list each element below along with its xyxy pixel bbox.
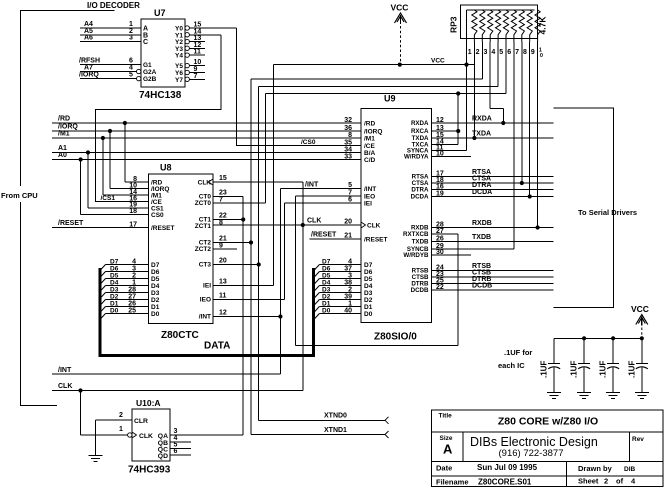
svg-text:C/D: C/D — [364, 157, 376, 164]
svg-text:39: 39 — [344, 294, 352, 301]
U9 clk pin number — [344, 219, 352, 226]
wire SYNCB from RP3 pin 7 — [432, 42, 514, 249]
svg-text:G2A: G2A — [143, 69, 157, 76]
wire CTSB to serial drivers — [432, 270, 554, 277]
svg-text:.1UF for: .1UF for — [504, 348, 532, 357]
junction VCC RP3 pin1 — [464, 63, 468, 67]
open connector XTND1 — [385, 431, 389, 438]
svg-text:3: 3 — [129, 35, 133, 42]
svg-text:DCDA: DCDA — [411, 194, 429, 201]
U7 output Y2 pin 13 wire — [185, 35, 205, 44]
capacitor C4 .1UF with ground — [627, 338, 649, 398]
svg-text:/INT: /INT — [305, 181, 319, 188]
svg-text:8: 8 — [523, 49, 527, 56]
svg-text:/RESET: /RESET — [151, 225, 175, 232]
svg-text:D2: D2 — [110, 294, 119, 301]
wire /M1 bus line — [52, 131, 361, 138]
svg-text:17: 17 — [129, 221, 137, 228]
stub W/RDYA pin 10 — [432, 156, 472, 158]
svg-text:74HC393: 74HC393 — [128, 465, 171, 476]
title block date row — [436, 463, 636, 473]
wire A1 bus line — [52, 145, 361, 152]
svg-text:D4: D4 — [110, 280, 119, 287]
svg-text:DCDB: DCDB — [472, 283, 492, 290]
svg-text:38: 38 — [344, 280, 352, 287]
junction cap rail 2 — [582, 336, 586, 340]
svg-text:/INT: /INT — [199, 314, 211, 321]
wire A0 bus line — [52, 152, 361, 159]
wire /RESET stub to U9 pin 21 — [309, 232, 361, 239]
junction VCC arrow — [398, 63, 402, 67]
svg-text:Sun Jul 09 1995: Sun Jul 09 1995 — [477, 463, 538, 472]
DATA bus thick line — [99, 268, 315, 356]
svg-text:Y4: Y4 — [175, 53, 183, 60]
svg-text:/RESET: /RESET — [311, 232, 337, 239]
wire DCDB to serial drivers — [432, 283, 554, 290]
svg-text:.1UF: .1UF — [570, 361, 579, 378]
capacitor C2 .1UF with ground — [570, 338, 592, 398]
svg-text:CT3: CT3 — [199, 262, 212, 269]
svg-text:Z80CORE.S01: Z80CORE.S01 — [478, 478, 532, 487]
svg-text:I/O DECODER: I/O DECODER — [87, 1, 140, 10]
svg-text:/INT: /INT — [364, 186, 376, 193]
svg-text:CLK: CLK — [139, 433, 153, 440]
U9 clock input mark — [361, 222, 381, 230]
svg-text:D6: D6 — [322, 266, 331, 273]
svg-text:13: 13 — [219, 279, 227, 286]
stub U10 QB — [170, 441, 191, 443]
wire RTSB to serial drivers — [432, 263, 554, 270]
U7 output Y6 pin 9 wire — [185, 66, 205, 75]
junction cap rail 3 — [611, 336, 615, 340]
svg-text:RXCA: RXCA — [411, 128, 429, 135]
svg-text:/RD: /RD — [364, 120, 376, 127]
svg-text:2: 2 — [604, 477, 608, 486]
svg-text:XTND1: XTND1 — [324, 427, 347, 434]
svg-text:CLK: CLK — [58, 383, 72, 390]
svg-text:1: 1 — [348, 301, 352, 308]
stub U8 ZCT1 pin 8 — [213, 224, 225, 226]
svg-text:9: 9 — [219, 242, 223, 249]
svg-text:/RESET: /RESET — [364, 237, 388, 244]
svg-text:4: 4 — [491, 49, 495, 56]
svg-text:Date: Date — [436, 464, 452, 473]
svg-text:2: 2 — [119, 412, 123, 419]
wire RXDB to serial drivers — [432, 220, 554, 227]
svg-text:DIBs Electronic Design: DIBs Electronic Design — [470, 435, 598, 449]
capacitor C1 .1UF with ground — [540, 338, 562, 398]
svg-text:1: 1 — [132, 280, 136, 287]
svg-text:26: 26 — [128, 301, 136, 308]
svg-text:.1UF: .1UF — [627, 361, 636, 378]
U9 interrupt pin labels — [348, 182, 376, 207]
svg-text:G2B: G2B — [143, 76, 157, 83]
wire DTRA to serial drivers — [432, 182, 554, 189]
U9 left control pin labels — [344, 117, 382, 164]
svg-text:each IC: each IC — [498, 361, 525, 370]
svg-text:(916) 722-3877: (916) 722-3877 — [499, 448, 564, 459]
svg-text:ZCT2: ZCT2 — [195, 246, 212, 253]
counter U10:A 74HC393 body — [128, 398, 171, 476]
svg-text:9: 9 — [531, 49, 535, 56]
svg-text:12: 12 — [219, 310, 227, 317]
svg-text:D5: D5 — [151, 276, 160, 283]
wire U8 IEO to U9 IEI — [213, 203, 361, 300]
U9 right pin labels and numbers — [403, 117, 444, 294]
wire /IORD to U7 pin 5 with inversion bubble — [79, 72, 141, 81]
stub W/RDYB pin 30 — [432, 254, 472, 256]
junction QA net at CT1 — [241, 217, 245, 221]
wire VCC rail — [274, 57, 475, 64]
U9 reset pin label — [344, 233, 387, 244]
junction baud clock at RXCA — [456, 129, 460, 133]
svg-text:6: 6 — [507, 49, 511, 56]
svg-text:Filename: Filename — [436, 478, 469, 487]
wire A6 to U7 pin 3 — [80, 35, 141, 42]
From CPU bracket — [1, 11, 115, 406]
U7 pin labels inside — [143, 26, 183, 84]
svg-text:4.7K: 4.7K — [538, 16, 548, 35]
svg-text:W/RDYA: W/RDYA — [404, 154, 429, 161]
svg-text:0: 0 — [540, 53, 543, 59]
wire A4 to U7 pin 1 — [80, 21, 141, 28]
wire A7 to U7 pin 4 with inversion bubble — [80, 65, 141, 74]
svg-text:D1: D1 — [322, 301, 331, 308]
wire TXDA to serial drivers — [432, 131, 554, 138]
junction XTND1 at CT2 — [249, 240, 253, 244]
svg-text:4: 4 — [132, 259, 136, 266]
svg-text:Z80CTC: Z80CTC — [161, 330, 199, 341]
U8 right pin labels — [195, 175, 227, 321]
junction /RD to U8 — [123, 121, 149, 182]
svg-text:6: 6 — [174, 448, 178, 455]
svg-text:D0: D0 — [364, 311, 373, 318]
svg-text:34: 34 — [344, 146, 352, 153]
svg-text:CLK: CLK — [307, 218, 321, 225]
svg-text:/RFSH: /RFSH — [79, 58, 100, 65]
title block filename row — [436, 477, 636, 487]
junction baud clock at RP3 pin6 drop — [456, 91, 460, 95]
U7 output Y4 pin 11 wire — [185, 49, 205, 58]
svg-text:D3: D3 — [110, 287, 119, 294]
wire DCDA to serial drivers — [432, 189, 554, 196]
stub U8 ZCT2 pin 9 — [213, 248, 237, 250]
svg-text:DTRA: DTRA — [472, 182, 491, 189]
RP3 pin1 lead to VCC — [466, 42, 468, 65]
svg-text:U9: U9 — [384, 94, 396, 104]
svg-text:D1: D1 — [110, 301, 119, 308]
svg-text:/IORQ: /IORQ — [79, 72, 99, 79]
svg-text:VCC: VCC — [631, 304, 649, 314]
wire capacitor rail — [554, 337, 642, 339]
svg-text:G1: G1 — [143, 62, 152, 69]
svg-text:IEO: IEO — [364, 194, 375, 201]
svg-text:18: 18 — [129, 208, 137, 215]
svg-text:D4: D4 — [322, 280, 331, 287]
svg-text:3: 3 — [484, 49, 488, 56]
U9 data pins D7-D0 with bus stubs — [313, 259, 372, 321]
wire /RFSH to U7 pin 6 — [79, 58, 141, 65]
svg-text:A1: A1 — [58, 145, 67, 152]
junction cap rail vcc — [640, 336, 644, 340]
U7 output Y5 pin 10 wire — [185, 59, 205, 68]
wire DTRB to serial drivers — [432, 276, 554, 283]
junction XTND0 at CT3 — [257, 262, 261, 266]
RP3 pin2 lead to TXDA pullup — [472, 42, 476, 140]
svg-text:/INT: /INT — [58, 367, 72, 374]
svg-text:Z80 CORE w/Z80 I/O: Z80 CORE w/Z80 I/O — [498, 416, 598, 428]
svg-text:D5: D5 — [322, 273, 331, 280]
svg-text:Drawn by: Drawn by — [578, 464, 613, 473]
svg-text:CLR: CLR — [134, 418, 148, 425]
svg-text:15: 15 — [219, 175, 227, 182]
svg-text:IEI: IEI — [364, 201, 372, 208]
svg-text:40: 40 — [344, 308, 352, 315]
wire net /CS1 from U7 Y1 to U8 /CE pin 16 — [96, 35, 222, 202]
svg-text:RXTXCB: RXTXCB — [403, 231, 429, 238]
decoder U7 74HC138 body — [139, 8, 185, 101]
svg-text:ZCT1: ZCT1 — [195, 223, 212, 230]
svg-text:D7: D7 — [322, 259, 331, 266]
svg-text:/M1: /M1 — [364, 135, 375, 142]
wire RTSA to serial drivers — [432, 169, 554, 176]
stub U10 QD — [170, 454, 191, 456]
VCC symbol top — [391, 3, 409, 65]
To Serial Drivers bracket — [554, 108, 637, 308]
svg-text:/M1: /M1 — [58, 131, 70, 138]
svg-text:/CS1: /CS1 — [101, 195, 116, 202]
svg-text:DCDA: DCDA — [472, 189, 492, 196]
RP3 pin6 lead to baud clock — [505, 42, 507, 94]
svg-text:DIB: DIB — [624, 466, 636, 473]
svg-text:D6: D6 — [151, 269, 160, 276]
capacitor C3 .1UF with ground — [599, 338, 621, 398]
RP3 pin3 lead to XTND1 — [481, 42, 483, 79]
svg-text:28: 28 — [128, 287, 136, 294]
RP3 pin10 lead to RXDB pullup — [536, 42, 540, 230]
svg-text:A: A — [443, 442, 453, 457]
junction A0 to U8 CS0 — [79, 157, 149, 214]
svg-text:3: 3 — [132, 266, 136, 273]
wire XTND1 net to U8 CT2 and RP3 pin 3 — [213, 79, 482, 435]
svg-text:XTND0: XTND0 — [324, 413, 347, 420]
title block title row — [439, 413, 599, 428]
svg-text:RP3: RP3 — [449, 16, 459, 33]
svg-text:20: 20 — [219, 258, 227, 265]
svg-text:VCC: VCC — [431, 57, 445, 64]
junction /IORQ to U8 — [108, 129, 149, 189]
RP3 pin4 lead to RXDA pullup — [490, 42, 505, 125]
svg-text:RXDA: RXDA — [472, 116, 492, 123]
svg-text:ZCT0: ZCT0 — [195, 200, 212, 207]
svg-text:D4: D4 — [364, 283, 373, 290]
svg-text:D3: D3 — [151, 290, 160, 297]
svg-text:35: 35 — [344, 139, 352, 146]
svg-text:D6: D6 — [364, 269, 373, 276]
svg-text:6: 6 — [129, 58, 133, 65]
svg-text:QD: QD — [158, 453, 168, 460]
svg-text:11: 11 — [219, 293, 227, 300]
svg-text:TXDB: TXDB — [472, 234, 491, 241]
svg-text:2: 2 — [476, 49, 480, 56]
VCC symbol bottom right — [631, 304, 649, 338]
svg-text:RXDA: RXDA — [411, 120, 429, 127]
wire U8 IEI to VCC — [213, 65, 274, 286]
SIO U9 Z80SIO/0 body — [361, 94, 432, 343]
svg-text:4: 4 — [129, 65, 133, 72]
wire /IORQ bus line — [52, 124, 361, 131]
junction /INT at U8 pin 12 — [278, 314, 282, 318]
svg-text:2: 2 — [132, 273, 136, 280]
svg-text:D7: D7 — [110, 259, 119, 266]
I/O DECODER title label — [87, 1, 140, 10]
svg-text:.1UF: .1UF — [540, 361, 549, 378]
U7 output Y3 pin 12 wire — [185, 42, 205, 51]
svg-text:D6: D6 — [110, 266, 119, 273]
wire /INT net — [52, 181, 361, 374]
caps note text — [498, 348, 532, 370]
svg-text:Rev: Rev — [632, 436, 644, 443]
U8 data pins D7-D0 with bus stubs — [100, 259, 160, 321]
svg-text:5: 5 — [129, 72, 133, 79]
svg-text:U7: U7 — [154, 8, 166, 18]
U7 output Y0 pin 15 wire — [185, 22, 237, 31]
svg-text:A7: A7 — [84, 65, 93, 72]
svg-text:1: 1 — [119, 426, 123, 433]
wire XTND0 net to U8 CT3 and RP3 pin 5 — [213, 87, 498, 421]
svg-text:D0: D0 — [110, 308, 119, 315]
svg-text:1: 1 — [468, 49, 472, 56]
title block size and company — [440, 435, 645, 459]
svg-text:DATA: DATA — [204, 341, 230, 352]
svg-text:3: 3 — [348, 273, 352, 280]
wire CTSA to serial drivers — [432, 176, 554, 183]
U8 pin numbers for CT rows — [219, 190, 227, 317]
svg-text:5: 5 — [499, 49, 503, 56]
U8 clock input mark — [198, 179, 213, 187]
svg-text:27: 27 — [128, 294, 136, 301]
wire RXDA to serial drivers — [432, 116, 554, 123]
svg-text:7: 7 — [194, 73, 198, 80]
U10 CLR pin wire and ground — [89, 412, 148, 461]
svg-text:/CE: /CE — [364, 143, 376, 150]
svg-text:D5: D5 — [364, 276, 373, 283]
svg-text:D2: D2 — [364, 297, 373, 304]
U10 output labels — [158, 428, 178, 460]
svg-text:B/A: B/A — [364, 150, 376, 157]
svg-text:CLK: CLK — [367, 223, 381, 230]
svg-text:CS0: CS0 — [151, 212, 164, 219]
svg-text:D2: D2 — [322, 294, 331, 301]
RP3 pin5 lead to XTND0 — [497, 42, 499, 87]
svg-text:IEO: IEO — [200, 297, 211, 304]
svg-text:C: C — [143, 39, 148, 46]
svg-text:11: 11 — [194, 49, 202, 56]
svg-text:IEI: IEI — [203, 283, 211, 290]
wire net /CS0 from U7 Y0 to U9 /CE pin 35 — [237, 28, 361, 146]
wire /RESET line to U8 pin 17 — [52, 220, 149, 227]
svg-text:/CS0: /CS0 — [301, 139, 316, 146]
svg-text:D0: D0 — [322, 308, 331, 315]
svg-text:.1UF: .1UF — [599, 361, 608, 378]
svg-text:Sheet: Sheet — [578, 477, 599, 486]
wire A5 to U7 pin 2 — [80, 28, 141, 35]
svg-text:D3: D3 — [322, 287, 331, 294]
svg-text:7: 7 — [515, 49, 519, 56]
junction /M1 to U8 — [101, 136, 149, 195]
svg-text:W/RDYB: W/RDYB — [403, 252, 429, 259]
svg-text:To Serial Drivers: To Serial Drivers — [578, 208, 637, 217]
RP3 pin7 lead to SYNCB — [513, 42, 515, 56]
svg-text:CLK: CLK — [198, 180, 212, 187]
junction CLK main — [301, 223, 305, 227]
svg-text:D3: D3 — [364, 290, 373, 297]
svg-text:4: 4 — [348, 259, 352, 266]
wire baud clock A net from U8 ZCT0 to U9 RXCA TXCA and RP3 pin 6 — [213, 94, 506, 204]
svg-text:D7: D7 — [364, 262, 373, 269]
wire TXDB to serial drivers — [432, 234, 554, 241]
svg-text:U10:A: U10:A — [136, 398, 161, 408]
U10 CLK pin with bubble — [119, 426, 153, 440]
U7 output Y1 pin 14 wire — [185, 28, 221, 37]
U8 left pin labels — [129, 176, 174, 232]
svg-text:/IORQ: /IORQ — [58, 124, 78, 131]
svg-text:D7: D7 — [151, 262, 160, 269]
svg-text:Y7: Y7 — [175, 77, 183, 84]
U7 output Y7 pin 7 wire — [185, 73, 205, 82]
RP3 pin8 lead to CTSA pullup — [520, 42, 524, 185]
svg-text:TXDB: TXDB — [412, 239, 429, 246]
svg-text:D4: D4 — [151, 283, 160, 290]
svg-text:DTRA: DTRA — [411, 187, 429, 194]
svg-text:DCDB: DCDB — [411, 287, 429, 294]
stub U10 QC — [170, 447, 191, 449]
svg-text:25: 25 — [128, 308, 136, 315]
svg-text:Z80SIO/0: Z80SIO/0 — [374, 332, 417, 343]
svg-text:Title: Title — [439, 413, 453, 420]
svg-text:RXDB: RXDB — [472, 220, 492, 227]
wire /RD bus line — [52, 116, 361, 123]
svg-text:From CPU: From CPU — [1, 191, 38, 200]
open connector XTND0 — [385, 417, 389, 424]
svg-text:74HC138: 74HC138 — [139, 90, 182, 101]
svg-text:A6: A6 — [84, 35, 93, 42]
svg-text:of: of — [616, 477, 624, 486]
svg-text:A0: A0 — [58, 152, 67, 159]
wire U10 QA to U8 CT0 CT1 — [170, 197, 243, 436]
wire CLK net — [52, 182, 361, 391]
svg-text:D0: D0 — [151, 311, 160, 318]
wire SYNCA tie to VCC rail — [432, 65, 467, 151]
svg-text:2: 2 — [348, 287, 352, 294]
svg-text:/IORQ: /IORQ — [364, 128, 382, 135]
junction CLK to U10 — [78, 388, 127, 435]
svg-text:D2: D2 — [151, 297, 160, 304]
CTC U8 Z80CTC body — [149, 163, 214, 342]
svg-text:VCC: VCC — [391, 3, 409, 13]
svg-text:/RESET: /RESET — [58, 220, 84, 227]
resistor pack RP3 4.7K body — [449, 5, 548, 42]
svg-text:D1: D1 — [151, 304, 160, 311]
svg-text:D1: D1 — [364, 304, 373, 311]
RP3 pin9 lead to DCDA pullup — [528, 42, 532, 199]
svg-text:U8: U8 — [160, 163, 172, 173]
svg-text:D5: D5 — [110, 273, 119, 280]
title block frame — [432, 410, 664, 487]
svg-text:/RD: /RD — [58, 116, 70, 123]
wire net U9 IEO to RXTXCB loop — [296, 196, 459, 346]
svg-text:33: 33 — [344, 153, 352, 160]
